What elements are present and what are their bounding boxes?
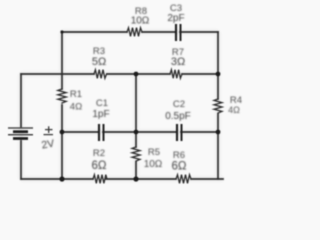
svg-text:2pF: 2pF xyxy=(167,13,184,24)
svg-text:R5: R5 xyxy=(148,147,160,158)
svg-text:C1: C1 xyxy=(96,98,108,109)
svg-text:C2: C2 xyxy=(173,99,185,110)
svg-text:4Ω: 4Ω xyxy=(70,102,82,113)
svg-text:2V: 2V xyxy=(41,138,56,152)
svg-text:R1: R1 xyxy=(70,89,82,100)
svg-text:10Ω: 10Ω xyxy=(144,159,163,170)
svg-text:0.5pF: 0.5pF xyxy=(165,111,191,122)
svg-text:5Ω: 5Ω xyxy=(92,56,106,68)
svg-text:3Ω: 3Ω xyxy=(171,56,185,68)
svg-text:6Ω: 6Ω xyxy=(92,160,107,172)
svg-text:R6: R6 xyxy=(173,150,185,161)
svg-text:4Ω: 4Ω xyxy=(228,105,240,115)
svg-text:10Ω: 10Ω xyxy=(131,16,150,27)
svg-text:R2: R2 xyxy=(93,148,105,159)
svg-text:1pF: 1pF xyxy=(92,109,109,120)
svg-text:6Ω: 6Ω xyxy=(172,161,187,173)
